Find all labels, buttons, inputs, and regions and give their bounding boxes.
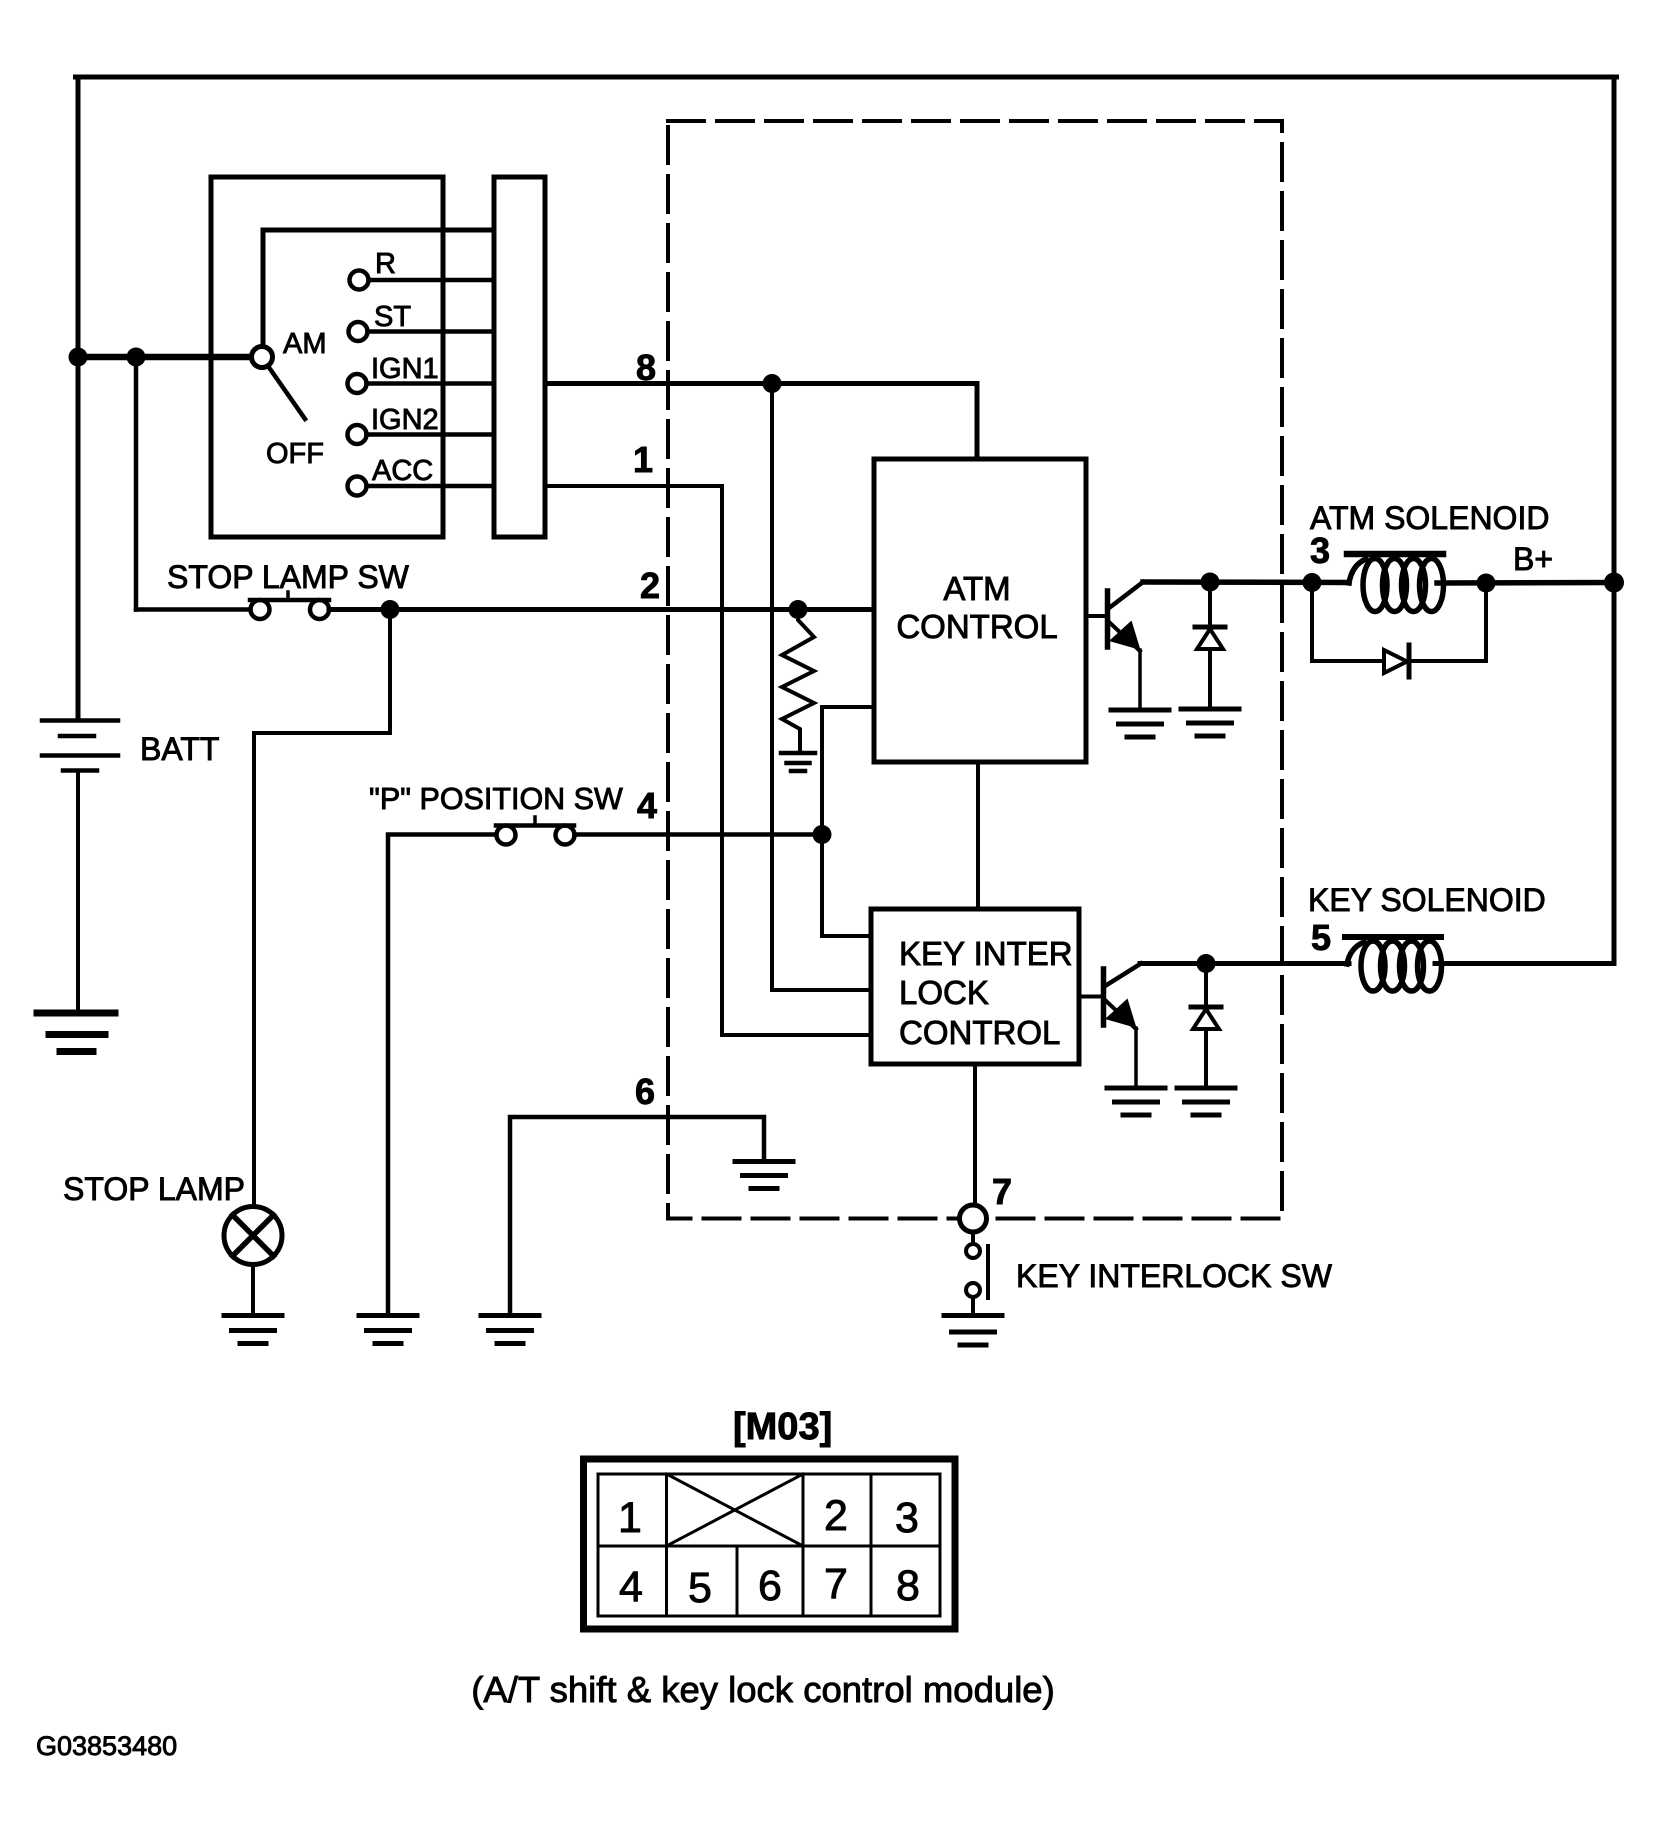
svg-text:OFF: OFF bbox=[266, 438, 324, 470]
resistor to ground bbox=[782, 610, 814, 752]
ATM solenoid core bar bbox=[1347, 551, 1443, 558]
svg-text:LOCK: LOCK bbox=[899, 974, 989, 1011]
stop lamp bbox=[224, 1207, 282, 1265]
svg-text:7: 7 bbox=[992, 1171, 1012, 1212]
wire: ATM control to key interlock control bbox=[976, 762, 980, 909]
wire: left border down to battery bbox=[76, 77, 81, 718]
ground: battery bbox=[37, 1013, 115, 1052]
wire 2 left stub bbox=[136, 607, 251, 612]
ground: wire 6 right bbox=[735, 1162, 793, 1189]
ground: wire 6 left bbox=[481, 1316, 539, 1344]
M03 pin numbers bbox=[618, 1492, 920, 1612]
stop lamp switch tick bbox=[286, 592, 290, 600]
wire R bbox=[369, 278, 495, 283]
wire ACC bbox=[367, 484, 495, 489]
wire 6 bbox=[510, 1117, 764, 1313]
ignition switch box bbox=[211, 177, 443, 537]
ground: diode D1 bbox=[1181, 709, 1239, 736]
svg-text:6: 6 bbox=[635, 1071, 655, 1112]
M03 connector outer box bbox=[584, 1459, 956, 1629]
ground: resistor bbox=[781, 753, 815, 771]
wire IGN2 bbox=[367, 432, 495, 437]
ground: key interlock switch bbox=[944, 1316, 1002, 1346]
node: B+ on right border bbox=[1604, 573, 1624, 593]
node: solenoid pin 3 bbox=[1303, 573, 1322, 592]
P position switch lever bbox=[496, 823, 574, 828]
wire 1 bbox=[545, 486, 871, 1035]
ATM solenoid bypass diode path bbox=[1312, 583, 1384, 662]
terminal R bbox=[350, 271, 369, 290]
node: junction on left border bbox=[69, 348, 88, 367]
svg-text:ATM: ATM bbox=[943, 570, 1010, 607]
KEY INTER LOCK CONTROL box bbox=[871, 909, 1079, 1064]
battery BATT bbox=[42, 721, 118, 771]
svg-text:3: 3 bbox=[1310, 530, 1330, 571]
svg-text:CONTROL: CONTROL bbox=[896, 608, 1057, 645]
wire: Q2 emitter to ground bbox=[1134, 1028, 1138, 1086]
node: wire 4 junction bbox=[813, 825, 832, 844]
wire 2 bbox=[329, 607, 874, 612]
ground: Q1 emitter bbox=[1111, 710, 1169, 737]
wire: Q1 emitter to ground bbox=[1138, 650, 1142, 708]
key solenoid line right segment bbox=[1435, 961, 1614, 966]
wire IGN1 bbox=[367, 381, 495, 386]
svg-text:CONTROL: CONTROL bbox=[899, 1014, 1060, 1051]
wire: node 4 up to ATM control bbox=[822, 707, 874, 835]
svg-text:2: 2 bbox=[640, 565, 660, 606]
terminal IGN2 bbox=[348, 425, 367, 444]
transistor Q2 collector bbox=[1105, 964, 1141, 987]
svg-text:5: 5 bbox=[688, 1564, 712, 1612]
svg-text:"P" POSITION SW: "P" POSITION SW bbox=[369, 782, 623, 816]
wire: stop lamp drop bbox=[254, 610, 390, 1207]
svg-text:KEY INTER: KEY INTER bbox=[899, 935, 1073, 972]
ground: stop lamp bbox=[224, 1316, 282, 1344]
transistor Q1 collector bbox=[1109, 582, 1143, 608]
transistor Q1 emitter bbox=[1109, 622, 1140, 651]
svg-text:8: 8 bbox=[896, 1562, 920, 1610]
transistor Q2 base bar bbox=[1101, 969, 1107, 1025]
svg-text:ACC: ACC bbox=[372, 455, 433, 487]
terminal ST bbox=[349, 322, 368, 341]
ATM solenoid coil bbox=[1349, 559, 1366, 583]
module dashed box (A/T shift and key lock control module) bbox=[668, 121, 1282, 1219]
diode D1 bbox=[1208, 582, 1212, 627]
wire ST bbox=[368, 329, 495, 334]
node: wire 8 junction bbox=[763, 374, 782, 393]
node: solenoid right bbox=[1477, 574, 1496, 593]
P position switch tick bbox=[533, 817, 537, 825]
node: diode D2 tap bbox=[1197, 954, 1216, 973]
wire: node 4 down to key interlock control bbox=[822, 835, 871, 937]
wire: right border down to key solenoid line bbox=[1612, 77, 1617, 964]
wire 8 bbox=[545, 384, 977, 460]
wire: node 8 to key interlock control bbox=[772, 384, 871, 991]
svg-text:AM: AM bbox=[283, 328, 327, 360]
node: stop lamp branch bbox=[381, 600, 400, 619]
diode D2 bbox=[1204, 964, 1208, 1008]
svg-text:STOP LAMP: STOP LAMP bbox=[63, 1171, 245, 1207]
stop lamp switch contact left bbox=[251, 600, 270, 619]
wire: AM feed bbox=[78, 354, 252, 361]
M03 connector inner box bbox=[598, 1474, 940, 1616]
svg-text:R: R bbox=[375, 248, 396, 280]
svg-text:(A/T shift & key lock control: (A/T shift & key lock control module) bbox=[471, 1669, 1055, 1710]
M03 row divider bbox=[598, 1545, 940, 1548]
svg-text:6: 6 bbox=[758, 1562, 782, 1610]
ignition switch lever bbox=[268, 366, 305, 419]
M03 column dividers bbox=[665, 1474, 668, 1616]
ground: Q2 emitter bbox=[1107, 1088, 1165, 1115]
svg-text:2: 2 bbox=[824, 1492, 848, 1540]
wire: drop to stop lamp switch bbox=[134, 357, 139, 610]
svg-text:3: 3 bbox=[895, 1494, 919, 1542]
KEY solenoid coil bbox=[1347, 942, 1364, 964]
transistor Q1 emitter arrow bbox=[1109, 621, 1141, 651]
svg-text:IGN1: IGN1 bbox=[371, 353, 439, 385]
svg-text:4: 4 bbox=[637, 785, 657, 826]
M03 crossed cell bbox=[667, 1474, 804, 1546]
transistor Q2 emitter bbox=[1105, 1000, 1136, 1029]
wire: top border bus bbox=[76, 75, 1617, 80]
stop lamp switch lever bbox=[250, 598, 329, 603]
wire: stop lamp to ground bbox=[251, 1265, 255, 1314]
ATM CONTROL box bbox=[874, 459, 1086, 762]
transistor Q2 base wire bbox=[1079, 995, 1101, 999]
wire: key box down to pin 7 bbox=[973, 1064, 977, 1206]
svg-text:G03853480: G03853480 bbox=[36, 1731, 177, 1761]
node: junction stop-lamp branch bbox=[127, 348, 146, 367]
svg-text:1: 1 bbox=[618, 1494, 642, 1542]
key solenoid line left segment bbox=[1140, 961, 1349, 966]
svg-text:KEY SOLENOID: KEY SOLENOID bbox=[1308, 882, 1546, 918]
P position switch contact left bbox=[497, 826, 516, 845]
ground: diode D2 bbox=[1177, 1088, 1235, 1115]
svg-text:ATM SOLENOID: ATM SOLENOID bbox=[1310, 500, 1549, 536]
transistor Q2 emitter arrow bbox=[1105, 999, 1137, 1029]
transistor Q1 base wire bbox=[1086, 614, 1105, 618]
wire: P switch left bbox=[388, 835, 497, 1314]
main solenoid line right segment bbox=[1437, 580, 1614, 586]
transistor Q1 base bar bbox=[1105, 591, 1111, 647]
svg-text:IGN2: IGN2 bbox=[371, 404, 439, 436]
pin 7 terminal circle bbox=[960, 1205, 987, 1232]
svg-text:7: 7 bbox=[824, 1560, 848, 1608]
svg-text:[M03]: [M03] bbox=[733, 1406, 832, 1448]
KEY solenoid core bar bbox=[1345, 934, 1441, 940]
svg-text:8: 8 bbox=[636, 347, 656, 388]
svg-text:BATT: BATT bbox=[140, 731, 219, 767]
svg-text:KEY INTERLOCK SW: KEY INTERLOCK SW bbox=[1016, 1258, 1333, 1294]
node: diode D1 tap bbox=[1201, 573, 1220, 592]
node: resistor tap on wire 2 bbox=[789, 600, 808, 619]
wire: battery to ground bbox=[76, 772, 80, 1011]
terminal IGN1 bbox=[348, 374, 367, 393]
svg-text:1: 1 bbox=[633, 439, 653, 480]
ignition connector strip bbox=[494, 177, 545, 537]
svg-text:4: 4 bbox=[619, 1563, 643, 1611]
ground: P switch bbox=[359, 1316, 417, 1344]
key interlock switch bbox=[971, 1232, 975, 1244]
stop lamp switch contact right bbox=[310, 600, 329, 619]
main solenoid line left segment bbox=[1143, 579, 1349, 585]
ignition switch inner feed line bbox=[263, 230, 494, 351]
terminal ACC bbox=[348, 477, 367, 496]
svg-text:B+: B+ bbox=[1513, 541, 1553, 577]
wire 4 bbox=[575, 832, 823, 837]
P position switch contact right bbox=[556, 826, 575, 845]
svg-text:ST: ST bbox=[374, 301, 411, 333]
svg-text:STOP LAMP SW: STOP LAMP SW bbox=[167, 559, 410, 595]
ignition switch AM contact bbox=[252, 347, 273, 368]
svg-text:5: 5 bbox=[1311, 917, 1331, 958]
